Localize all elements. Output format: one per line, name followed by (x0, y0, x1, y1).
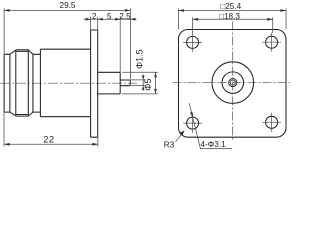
arrows 18.3 (193, 18, 273, 21)
knurl chamfers (10, 50, 33, 116)
dim 25.4 line (179, 10, 287, 12)
center circle middle (222, 72, 244, 94)
arrows 29.5 (4, 9, 130, 12)
svg-text:2: 2 (92, 12, 97, 21)
body left face (39, 49, 41, 117)
dim 18.3 line (193, 18, 273, 20)
svg-text:5: 5 (107, 12, 112, 21)
arrows 22 (4, 143, 98, 146)
leader R3 (176, 131, 185, 142)
arrows row2 (86, 18, 136, 21)
svg-text:□25.4: □25.4 (220, 2, 241, 11)
svg-text:4-Φ3.1: 4-Φ3.1 (201, 140, 227, 149)
dim phi5 extension lines (122, 72, 158, 94)
arrows 25.4 (179, 9, 287, 12)
dim 18.3 extension lines (193, 17, 273, 33)
flange square outline (179, 30, 287, 138)
insulator (98, 72, 121, 94)
bolt hole crosshair bottom-right (262, 113, 281, 132)
svg-text:Φ5: Φ5 (143, 79, 153, 91)
svg-text:22: 22 (43, 134, 54, 144)
knurl band top double line (16, 50, 28, 52)
flange plate side view (91, 30, 98, 137)
dim row 2 extension lines (91, 17, 121, 72)
dim 29.5 extension lines (4, 8, 130, 79)
center circle outer (212, 62, 254, 104)
bolt hole crosshair top-left (183, 33, 202, 52)
svg-text:R3: R3 (164, 141, 175, 150)
centerline side view (0, 82, 137, 84)
svg-text:Φ1.5: Φ1.5 (135, 49, 145, 69)
svg-text:29.5: 29.5 (60, 1, 76, 10)
dim row 2 line (84, 18, 137, 20)
dim 22 line (4, 143, 98, 145)
dim 29.5 line (4, 9, 130, 11)
knurl band left corner edge (15, 50, 17, 116)
arrow 4-phi3.1 leader (190, 112, 193, 117)
flange horizontal centerline (173, 82, 292, 84)
arrow R3 leader (180, 131, 184, 136)
dim phi5 line (155, 72, 157, 94)
body outline (40, 49, 90, 117)
rear ring right face (9, 54, 11, 112)
dim phi1.5 extension lines (131, 80, 146, 86)
knurl band bottom double line (16, 115, 28, 117)
knurl band right corner edge (27, 50, 29, 116)
nut rear flat (33, 54, 41, 112)
rear ring outline (4, 54, 10, 112)
svg-text:2.5: 2.5 (119, 12, 131, 21)
arrows phi5 (154, 72, 157, 94)
bolt hole top-left (187, 36, 199, 48)
dim phi1.5 line (142, 75, 144, 91)
center circle small (229, 79, 237, 87)
leader 4-phi3.1 with underline (189, 103, 232, 148)
bolt hole crosshair bottom-left (183, 114, 202, 133)
arrows phi1.5 (142, 75, 145, 90)
contact pin (120, 80, 130, 86)
dim 25.4 extension lines (179, 9, 287, 30)
bolt hole bottom-left (187, 117, 199, 129)
center circle pin (230, 80, 235, 85)
flange vertical centerline (232, 22, 234, 141)
bolt hole bottom-right (266, 116, 278, 128)
bolt hole crosshair top-right (262, 33, 281, 52)
dim 22 extension lines (4, 113, 98, 147)
svg-text:□18.3: □18.3 (219, 12, 240, 21)
chamfer base right edge (32, 54, 34, 112)
bolt hole top-right (266, 36, 278, 48)
